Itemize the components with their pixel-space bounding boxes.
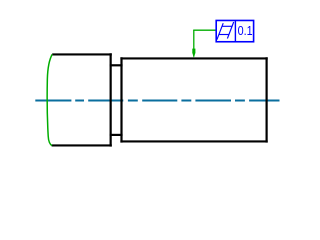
- svg-text:0.1: 0.1: [238, 23, 253, 38]
